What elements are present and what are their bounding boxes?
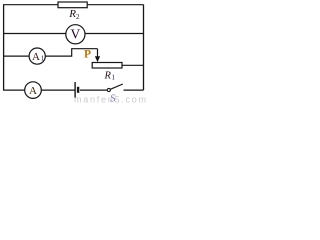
svg-text:R: R bbox=[68, 8, 76, 20]
wire bottom row bbox=[3, 89, 75, 91]
wire ammeter A1 row with step up to wiper bbox=[3, 49, 98, 56]
ammeter A bbox=[25, 82, 42, 99]
svg-text:A: A bbox=[32, 51, 40, 63]
switch S bbox=[107, 84, 123, 92]
voltmeter V bbox=[66, 25, 85, 44]
svg-text:V: V bbox=[71, 27, 81, 42]
svg-text:S: S bbox=[110, 93, 116, 105]
wiper arrow of rheostat bbox=[95, 49, 100, 63]
svg-text:1: 1 bbox=[41, 53, 45, 62]
wire left rail bbox=[3, 5, 5, 91]
svg-text:1: 1 bbox=[112, 73, 116, 81]
svg-text:P: P bbox=[84, 48, 91, 60]
resistor R2 bbox=[58, 2, 87, 8]
svg-text:2: 2 bbox=[76, 13, 80, 21]
wire right rail bbox=[143, 5, 145, 91]
svg-text:R: R bbox=[104, 70, 112, 81]
wire battery to switch bbox=[80, 89, 107, 91]
wire top row bbox=[3, 4, 144, 6]
wire R1 to right rail bbox=[122, 64, 144, 66]
battery bbox=[75, 82, 78, 98]
ammeter A1 bbox=[29, 48, 45, 64]
wire switch to right rail bbox=[124, 89, 144, 91]
svg-text:A: A bbox=[29, 85, 37, 97]
resistor R1 (rheostat body) bbox=[92, 63, 122, 69]
wire voltmeter row bbox=[3, 33, 144, 35]
